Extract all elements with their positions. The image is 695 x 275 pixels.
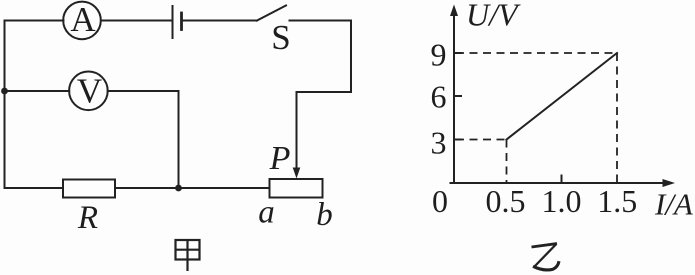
svg-text:0: 0 (432, 183, 448, 219)
svg-text:R: R (77, 200, 98, 236)
svg-text:U/V: U/V (466, 0, 521, 33)
svg-text:a: a (258, 195, 275, 231)
svg-text:A: A (70, 0, 96, 39)
svg-text:V: V (77, 71, 102, 110)
svg-text:6: 6 (431, 79, 447, 115)
svg-text:P: P (269, 140, 291, 177)
svg-text:b: b (316, 197, 333, 233)
svg-text:1.5: 1.5 (597, 183, 637, 219)
svg-text:1.0: 1.0 (542, 183, 582, 219)
svg-text:S: S (271, 18, 290, 57)
svg-text:9: 9 (431, 36, 447, 72)
svg-text:0.5: 0.5 (486, 183, 526, 219)
svg-text:3: 3 (431, 125, 447, 161)
svg-text:I/A: I/A (654, 187, 694, 222)
